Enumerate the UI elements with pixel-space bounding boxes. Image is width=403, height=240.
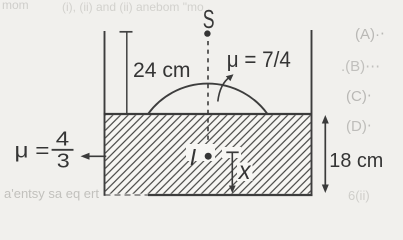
x measure: top cap [226,151,238,153]
svg-text:I: I [190,144,197,170]
svg-text:(i), (ii) and (ii) anebom "mo: (i), (ii) and (ii) anebom "mo [62,0,204,14]
svg-text:μ =: μ = [15,140,50,163]
hatched water region [106,115,311,194]
dashed optical axis [207,41,209,144]
svg-text:(D)‧: (D)‧ [346,118,372,135]
svg-text:(A)·‧: (A)·‧ [355,26,385,43]
container left wall [104,31,106,196]
svg-text:.(B)⋯: .(B)⋯ [341,58,380,75]
svg-text:S: S [203,4,215,34]
container bottom (faded left part) [105,194,149,196]
svg-text:6(ii): 6(ii) [348,188,370,203]
glass dome (curved refracting surface) [148,84,268,114]
svg-text:mom: mom [2,0,29,12]
source dot S [204,30,210,36]
white erase patch around I and dot [186,144,215,161]
water region background [106,115,311,194]
x measure bottom arrowhead [229,186,236,194]
svg-text:4: 4 [56,129,69,151]
x measure vertical line [231,152,233,187]
faint bleed-through text bottom [4,186,99,201]
white erase patch around x label [237,163,253,182]
white erase patch around x measure cap [222,147,241,158]
leader arrow pointing left to label [86,155,106,157]
faint bleed-through text right column [341,26,385,203]
faint bleed-through text top [2,0,204,14]
svg-text:(C)‧: (C)‧ [346,88,372,105]
curved leader arrow to dome [218,77,230,102]
svg-text:a'entsy sa eq ert: a'entsy sa eq ert [4,186,99,201]
svg-text:24 cm: 24 cm [133,59,191,82]
water surface line [104,113,313,115]
svg-text:18 cm: 18 cm [329,150,383,172]
24 cm measure line with top cap [126,32,128,113]
svg-text:x: x [238,157,252,185]
svg-text:3: 3 [57,151,70,173]
svg-text:μ = 7/4: μ = 7/4 [227,47,291,72]
dot I [205,153,212,160]
18 cm double arrow [324,119,326,189]
container right wall [311,30,313,196]
